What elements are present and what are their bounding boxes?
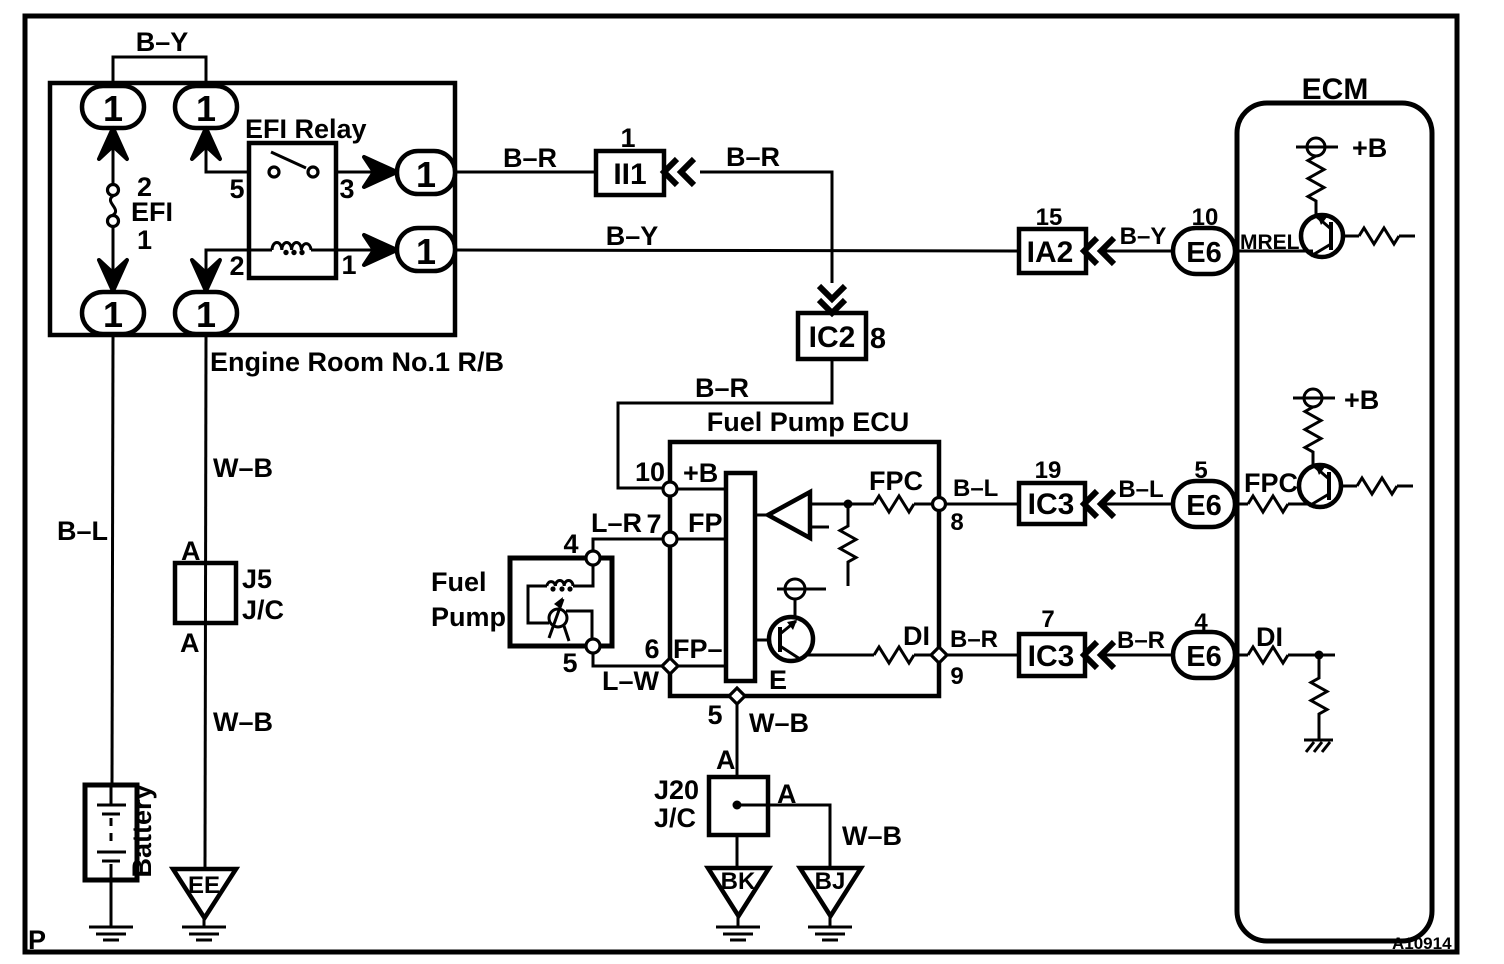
svg-text:EE: EE: [188, 872, 220, 899]
svg-text:EFI: EFI: [131, 197, 173, 227]
svg-text:19: 19: [1035, 457, 1062, 484]
svg-text:7: 7: [646, 509, 661, 539]
svg-text:W–B: W–B: [213, 453, 273, 483]
svg-text:P: P: [28, 925, 46, 955]
svg-text:E6: E6: [1186, 490, 1221, 522]
svg-text:5: 5: [229, 174, 244, 204]
svg-text:10: 10: [635, 457, 665, 487]
svg-text:1: 1: [103, 88, 123, 129]
svg-text:BJ: BJ: [815, 868, 846, 895]
svg-text:A: A: [716, 745, 736, 775]
svg-text:Fuel Pump ECU: Fuel Pump ECU: [707, 407, 910, 437]
svg-text:8: 8: [870, 323, 886, 355]
svg-text:E6: E6: [1186, 641, 1221, 673]
svg-text:DI: DI: [1256, 622, 1283, 652]
svg-text:EFI Relay: EFI Relay: [245, 114, 367, 144]
svg-text:1: 1: [416, 154, 436, 195]
svg-text:FPC: FPC: [869, 466, 923, 496]
svg-text:3: 3: [339, 174, 354, 204]
svg-text:IC3: IC3: [1028, 488, 1075, 521]
svg-text:1: 1: [196, 294, 216, 335]
svg-text:5: 5: [562, 648, 577, 678]
svg-text:B–Y: B–Y: [606, 221, 659, 251]
svg-text:8: 8: [950, 509, 963, 536]
svg-text:E6: E6: [1186, 237, 1221, 269]
svg-text:A10914: A10914: [1392, 934, 1452, 953]
svg-text:B–R: B–R: [950, 626, 998, 653]
svg-text:B–R: B–R: [1117, 627, 1165, 654]
svg-text:5: 5: [707, 700, 722, 730]
svg-text:B–L: B–L: [57, 516, 108, 546]
svg-text:A: A: [180, 628, 200, 658]
svg-text:1: 1: [137, 225, 152, 255]
svg-text:Pump: Pump: [431, 602, 506, 632]
svg-text:E: E: [769, 665, 787, 695]
svg-text:IC3: IC3: [1028, 640, 1075, 673]
svg-text:FP–: FP–: [673, 634, 723, 664]
svg-text:W–B: W–B: [213, 707, 273, 737]
svg-text:9: 9: [950, 663, 963, 690]
svg-text:II1: II1: [613, 158, 646, 191]
svg-text:+B: +B: [1344, 385, 1379, 415]
svg-text:ECM: ECM: [1302, 73, 1369, 106]
svg-text:1: 1: [196, 88, 216, 129]
svg-text:1: 1: [620, 123, 635, 153]
svg-text:IC2: IC2: [809, 321, 856, 354]
svg-text:L–W: L–W: [602, 666, 660, 696]
svg-text:+B: +B: [1352, 133, 1387, 163]
svg-text:7: 7: [1041, 606, 1054, 633]
svg-text:B–Y: B–Y: [136, 27, 189, 57]
svg-text:B–L: B–L: [1118, 476, 1163, 503]
svg-text:1: 1: [103, 294, 123, 335]
svg-text:W–B: W–B: [842, 821, 902, 851]
svg-text:Battery: Battery: [127, 784, 157, 877]
svg-text:W–B: W–B: [749, 708, 809, 738]
svg-text:2: 2: [229, 251, 244, 281]
svg-text:6: 6: [644, 634, 659, 664]
svg-text:FP: FP: [688, 508, 723, 538]
svg-text:1: 1: [416, 231, 436, 272]
svg-text:+B: +B: [683, 458, 718, 488]
svg-text:Fuel: Fuel: [431, 567, 487, 597]
svg-text:1: 1: [341, 250, 356, 280]
svg-text:J/C: J/C: [654, 803, 696, 833]
svg-text:4: 4: [563, 529, 578, 559]
svg-text:Engine Room No.1 R/B: Engine Room No.1 R/B: [210, 347, 504, 377]
svg-text:DI: DI: [903, 621, 930, 651]
svg-text:J/C: J/C: [242, 595, 284, 625]
svg-text:B–L: B–L: [953, 475, 998, 502]
svg-text:J5: J5: [242, 564, 272, 594]
svg-text:BK: BK: [721, 868, 756, 895]
svg-text:L–R: L–R: [591, 508, 642, 538]
svg-text:IA2: IA2: [1027, 236, 1074, 269]
svg-text:J20: J20: [654, 775, 699, 805]
svg-text:FPC: FPC: [1244, 468, 1298, 498]
svg-text:A: A: [777, 779, 797, 809]
svg-text:B–Y: B–Y: [1120, 223, 1167, 250]
svg-text:B–R: B–R: [503, 143, 557, 173]
svg-text:B–R: B–R: [726, 142, 780, 172]
svg-text:B–R: B–R: [695, 373, 749, 403]
